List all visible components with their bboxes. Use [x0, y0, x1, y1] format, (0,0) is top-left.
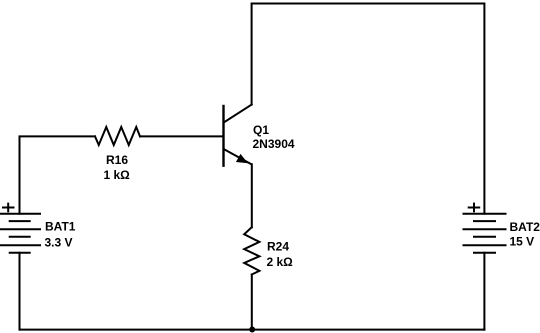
transistor Q1 base bar — [222, 106, 224, 166]
wire BAT1 - down to bottom — [19, 253, 21, 330]
transistor Q1 emitter arrowhead — [236, 154, 248, 163]
junction node at R24 / bottom wire — [249, 327, 255, 333]
transistor Q1 collector diagonal — [225, 105, 252, 122]
svg-text:R24: R24 — [267, 240, 289, 254]
battery BAT1 plus sign — [3, 204, 14, 212]
svg-text:3.3 V: 3.3 V — [45, 236, 73, 250]
battery BAT2 plates — [464, 214, 506, 253]
wire base net: BAT1 + up then right to R16 left lead — [20, 136, 96, 213]
wire emitter down to R24 — [251, 164, 253, 227]
svg-text:Q1: Q1 — [253, 123, 269, 137]
svg-text:BAT2: BAT2 — [510, 220, 540, 234]
svg-text:BAT1: BAT1 — [45, 220, 76, 234]
wire bottom: BAT1 - to BAT2 - — [20, 329, 485, 331]
battery BAT1 plates — [0, 214, 40, 253]
svg-text:1 kΩ: 1 kΩ — [104, 168, 131, 182]
wire R24 to bottom node — [251, 275, 253, 330]
transistor Q1 emitter diagonal — [225, 150, 252, 165]
wire R16 to base — [140, 135, 223, 137]
wire BAT2 - down to bottom — [483, 253, 485, 330]
svg-text:2N3904: 2N3904 — [253, 137, 295, 151]
wire collector-top-right: transistor collector up, across top, down to BAT2 + — [252, 4, 485, 214]
resistor R16 — [95, 127, 140, 145]
resistor R24 — [244, 227, 259, 274]
svg-text:2 kΩ: 2 kΩ — [267, 255, 294, 269]
svg-text:R16: R16 — [106, 153, 128, 167]
battery BAT2 plus sign — [469, 204, 480, 212]
svg-text:15 V: 15 V — [510, 234, 535, 248]
